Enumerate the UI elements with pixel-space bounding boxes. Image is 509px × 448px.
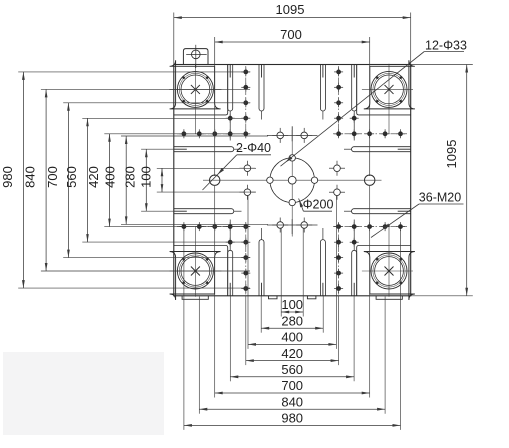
svg-text:36-M20: 36-M20 <box>419 191 461 205</box>
svg-text:100: 100 <box>281 297 303 312</box>
svg-text:12-Φ33: 12-Φ33 <box>425 39 467 53</box>
svg-text:980: 980 <box>281 411 303 426</box>
svg-text:100: 100 <box>138 166 153 188</box>
svg-text:840: 840 <box>281 394 303 409</box>
svg-text:280: 280 <box>123 166 138 188</box>
svg-text:700: 700 <box>45 166 60 188</box>
svg-text:400: 400 <box>281 330 303 345</box>
svg-text:420: 420 <box>281 346 303 361</box>
svg-text:400: 400 <box>103 166 118 188</box>
svg-text:560: 560 <box>64 166 79 188</box>
svg-text:700: 700 <box>281 378 303 393</box>
svg-text:700: 700 <box>280 27 302 42</box>
svg-text:Φ200: Φ200 <box>303 198 334 212</box>
svg-text:280: 280 <box>281 313 303 328</box>
svg-text:840: 840 <box>23 166 38 188</box>
svg-text:1095: 1095 <box>276 2 305 17</box>
svg-text:1095: 1095 <box>444 140 459 169</box>
svg-text:2-Φ40: 2-Φ40 <box>236 141 271 155</box>
svg-text:980: 980 <box>0 166 15 188</box>
svg-text:560: 560 <box>281 362 303 377</box>
svg-text:420: 420 <box>86 166 101 188</box>
